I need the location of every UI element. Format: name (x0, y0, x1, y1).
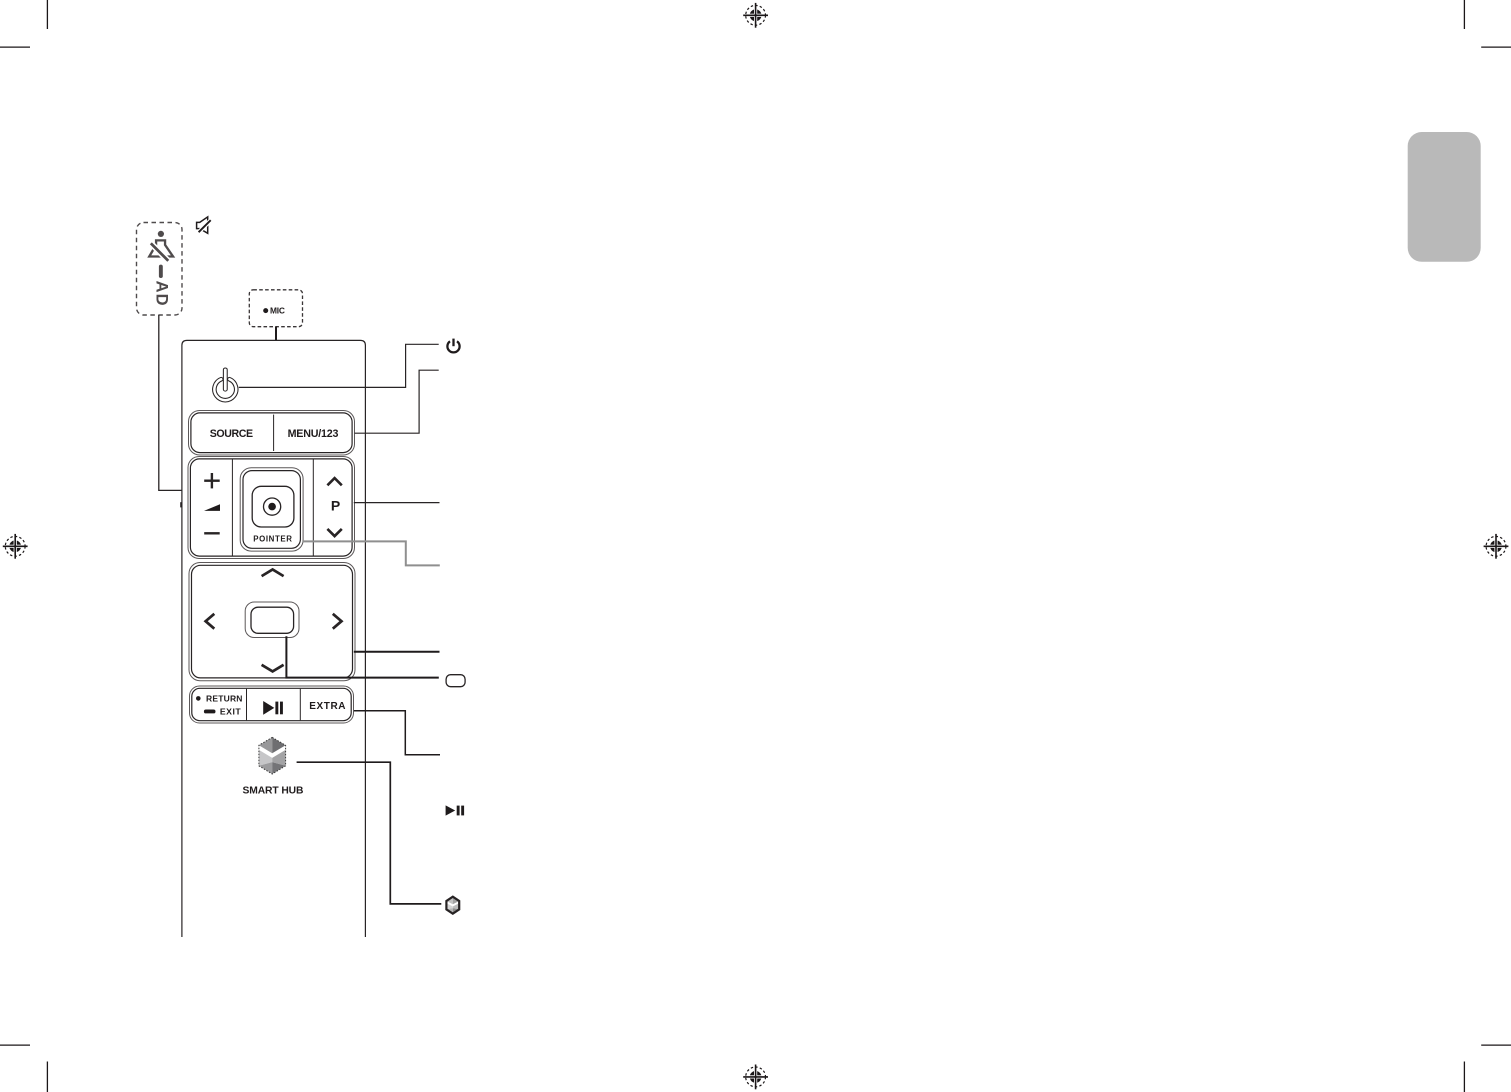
callout line: channel (354, 502, 440, 504)
dpad down chevron (262, 665, 284, 672)
svg-text:POINTER: POINTER (253, 535, 292, 544)
svg-text:EXTRA: EXTRA (309, 701, 346, 712)
svg-text:MENU/123: MENU/123 (288, 428, 339, 440)
select button icon (right column) (446, 675, 465, 687)
volume / pointer / channel button block (188, 457, 355, 559)
power button (on remote) (214, 370, 236, 400)
registration mark right-middle (1484, 534, 1509, 559)
AD mute icon (rotated) (149, 240, 173, 260)
volume wedge (204, 504, 220, 511)
AD leader line (159, 315, 182, 490)
callout line: smart hub (297, 762, 442, 904)
callout line: extra (354, 711, 440, 755)
callout line: power (239, 344, 439, 387)
pointer pad circle (264, 498, 281, 515)
volume minus (204, 532, 220, 534)
mute icon (top, beside AD box) (197, 217, 211, 233)
volume/pointer divider (231, 460, 233, 556)
play/pause glyph (remote) (263, 701, 283, 715)
directional pad block (189, 563, 355, 681)
callout line: select button (286, 636, 438, 677)
return/playpause divider (246, 689, 248, 721)
svg-text:EXIT: EXIT (220, 707, 242, 717)
svg-text:SMART HUB: SMART HUB (242, 785, 303, 796)
select button (center of dpad) (245, 602, 299, 638)
callout line: menu/123 (355, 370, 439, 433)
callout line: pointer (gray) (302, 541, 440, 565)
channel up chevron (327, 478, 341, 485)
MIC dashed box (249, 290, 302, 327)
svg-text:MIC: MIC (270, 305, 285, 315)
svg-text:P: P (331, 497, 340, 513)
svg-text:AD: AD (153, 281, 171, 307)
channel down chevron (327, 529, 341, 536)
AD side-button dashed box (137, 223, 183, 316)
registration mark bottom-center (743, 1065, 768, 1090)
source/menu divider (273, 415, 275, 451)
registration mark left-middle (3, 534, 28, 559)
svg-text:RETURN: RETURN (206, 694, 243, 704)
registration mark top-center (743, 3, 768, 28)
gray page-edge tab (1408, 132, 1481, 262)
return dot (196, 696, 201, 701)
pointer/channel divider (312, 460, 314, 556)
crop mark top-left (0, 0, 47, 47)
crop mark bottom-left (0, 1045, 47, 1092)
volume plus (204, 473, 220, 488)
pointer pad dot (268, 503, 276, 511)
exit pill (204, 710, 216, 714)
remote body outline (182, 340, 366, 937)
playpause/extra divider (299, 689, 301, 721)
AD side button bump on remote edge (180, 502, 182, 507)
pointer pad (252, 486, 294, 527)
MIC leader line (275, 327, 277, 341)
play/pause icon (right column) (446, 805, 465, 815)
dpad left chevron (206, 614, 215, 629)
SMART HUB cube logo (259, 737, 286, 774)
crop mark bottom-right (1464, 1045, 1511, 1092)
crop mark top-right (1464, 0, 1511, 47)
SOURCE / MENU-123 button block (189, 411, 355, 456)
dpad up chevron (262, 570, 284, 577)
AD dash (rotated) (159, 265, 163, 278)
return/playpause/extra button block (190, 686, 354, 723)
MIC dot (263, 308, 268, 313)
POINTER button frame (240, 468, 303, 551)
AD dot (158, 231, 164, 237)
callout line: dpad (354, 651, 440, 653)
power icon (right column) (447, 339, 459, 353)
dpad right chevron (333, 614, 342, 629)
svg-text:SOURCE: SOURCE (210, 428, 253, 440)
smart hub icon (right column, small cube) (446, 897, 459, 914)
